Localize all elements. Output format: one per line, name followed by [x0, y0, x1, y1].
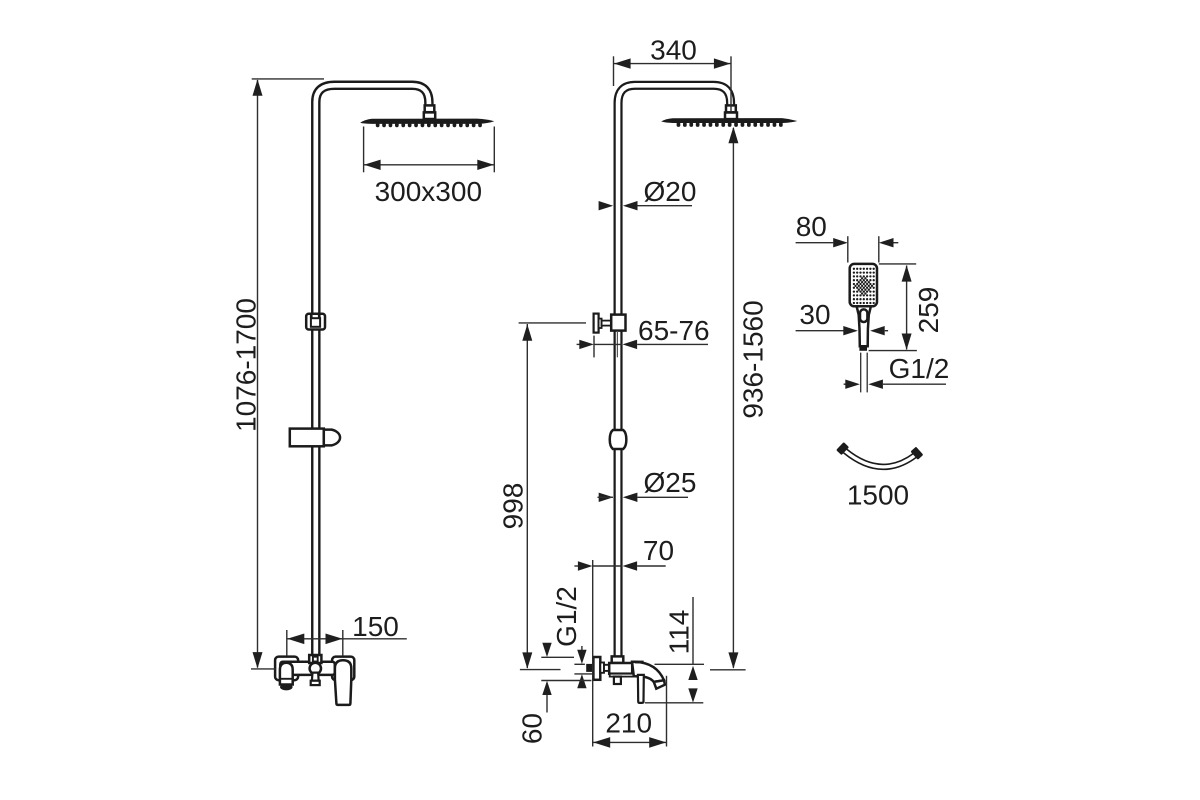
dim 210: left extension	[592, 560, 594, 747]
dim 65-76: middle segment	[594, 343, 622, 345]
dim 210: left arrow	[593, 737, 610, 748]
G1/2 inlet nipple (solid)	[586, 664, 592, 672]
dim 30: right arrow	[870, 326, 885, 335]
dim 210: right arrow	[649, 737, 666, 748]
dim 150: line	[287, 638, 407, 640]
dim 998: top arrow	[522, 324, 532, 340]
dim 65-76: left arrow	[579, 340, 594, 349]
dim 65-76: left tail	[577, 343, 581, 345]
svg-text:998: 998	[498, 483, 529, 530]
hose right fitting	[910, 447, 923, 460]
dim 300x300: line	[364, 164, 494, 166]
dim O25: right arrow	[623, 493, 638, 502]
dim O20: right leader	[638, 205, 693, 207]
dim O20: left arrow	[599, 201, 614, 210]
dim 114: up arrow	[688, 666, 697, 680]
pipe tee connector above mixer (side view)	[309, 655, 321, 663]
dim 114: upper line	[692, 597, 694, 664]
mixer body bar (side view)	[280, 662, 335, 675]
dim G1/2 mixer: bottom ref line	[574, 673, 592, 675]
inner guide line below collar	[616, 331, 618, 357]
dim 1076-1700: bottom arrow	[253, 652, 263, 668]
head connector nut (front view)	[725, 105, 737, 119]
svg-text:300x300: 300x300	[375, 176, 482, 207]
svg-text:80: 80	[796, 211, 827, 242]
dim 998: bottom arrow	[522, 652, 532, 668]
dim 300x300: right extension	[493, 127, 495, 173]
hose stub lines	[860, 353, 862, 393]
svg-text:1500: 1500	[847, 480, 909, 511]
dim 60: top arrow	[542, 643, 551, 657]
dim 30: right tail	[885, 330, 888, 332]
dim 65-76: right arrow	[623, 340, 638, 349]
dim 70: left arrow	[578, 561, 593, 570]
dim 80: right arrow	[879, 238, 894, 247]
hose outlet elbow (side view)	[280, 663, 293, 691]
svg-text:Ø25: Ø25	[644, 467, 697, 498]
dim 300x300: left arrow	[364, 160, 381, 170]
dim 1076-1700: bottom reference line	[251, 668, 276, 670]
dim 70: right leader	[637, 565, 666, 567]
hand shower handle	[857, 306, 871, 346]
dim 936-1560: top arrow	[728, 127, 738, 143]
dim G1/2 hose: left arrow	[845, 380, 860, 389]
handle bottom connector	[859, 346, 867, 350]
dim 150: left arrow	[287, 634, 304, 645]
slider bracket (side view)	[306, 314, 325, 330]
dim 60: lower line	[546, 695, 548, 713]
lever (front view)	[638, 675, 644, 703]
dim 60: top ref line	[541, 656, 574, 658]
dim 210: right extension	[666, 676, 668, 747]
dim G1/2 hose: left tail	[844, 383, 846, 385]
dim 150: right extension	[342, 630, 344, 656]
diverter foot (front view)	[614, 677, 621, 684]
dim 70: right arrow	[623, 561, 638, 570]
dim O25: left tail	[598, 496, 614, 498]
dim 1076-1700: vertical line	[257, 80, 259, 668]
svg-text:65-76: 65-76	[638, 315, 710, 346]
dim 340: left extension	[613, 56, 615, 86]
dim 80: right tail	[894, 242, 899, 244]
riser pipe (front view)	[618, 85, 731, 657]
dim 60: bottom ref line	[541, 680, 591, 682]
dim 114: down arrow	[688, 688, 697, 702]
dim 259: top arrow	[902, 265, 912, 281]
head nozzles (side view)	[376, 123, 482, 128]
svg-text:G1/2: G1/2	[889, 353, 950, 384]
svg-text:1076-1700: 1076-1700	[230, 298, 261, 432]
dim G1/2 hose: right leader	[883, 383, 946, 385]
svg-text:30: 30	[799, 299, 830, 330]
dim 340: left arrow	[614, 58, 631, 68]
dim 259: top reference line	[879, 263, 916, 265]
dim G1/2 mixer: lower arrow	[577, 674, 586, 688]
dim 70: left tail	[574, 565, 578, 567]
soap dish / handset holder (side view)	[290, 429, 340, 447]
dim G1/2 mixer: upper arrow	[577, 650, 586, 664]
diverter knob (side view)	[310, 663, 321, 685]
svg-text:936-1560: 936-1560	[738, 300, 769, 418]
dim G1/2 mixer: upper line	[581, 646, 583, 651]
flange collar steps (front view)	[600, 663, 604, 673]
dim O20: right arrow	[623, 201, 638, 210]
hand shower head	[850, 264, 877, 306]
hose left fitting	[836, 442, 849, 455]
dim 114: bottom reference line	[645, 702, 703, 704]
dim 300x300: left extension	[363, 127, 365, 173]
lever handle (side view)	[335, 660, 351, 705]
dim 998: bottom reference line	[520, 669, 561, 671]
dim 30: left arrow	[843, 326, 858, 335]
dim 150: right arrow	[326, 634, 343, 645]
dim 300x300: right arrow	[477, 160, 494, 170]
wall mixer (side view): left escutcheon	[275, 657, 298, 681]
dim 1076-1700: top reference line	[252, 78, 324, 80]
dim 80: left arrow	[833, 238, 848, 247]
svg-text:G1/2: G1/2	[551, 586, 582, 647]
dim G1/2 hose: right arrow	[868, 380, 883, 389]
dim 340: right extension	[730, 56, 732, 112]
dim 259: vertical line	[906, 266, 908, 350]
dim 150: left extension	[286, 630, 288, 656]
svg-text:60: 60	[517, 713, 548, 744]
dim 80: left extension	[847, 236, 849, 262]
dim 998: vertical line	[526, 324, 528, 668]
dim 1076-1700: top arrow	[253, 79, 263, 95]
dim O25: right leader	[637, 496, 688, 498]
mixer body (front view)	[609, 663, 632, 674]
body bottom lip	[610, 674, 636, 677]
dim O25: left arrow	[599, 493, 614, 502]
mixer flange (front view)	[593, 657, 600, 680]
wall bracket flange (front view)	[594, 314, 613, 333]
svg-text:259: 259	[913, 287, 944, 334]
dim 30: left leader	[796, 330, 844, 332]
rain shower head plate (front view)	[661, 118, 797, 123]
svg-text:340: 340	[650, 34, 697, 65]
head connector nut (side view)	[424, 105, 435, 119]
svg-text:150: 150	[352, 611, 399, 642]
svg-text:210: 210	[605, 707, 652, 738]
dim 340: line	[614, 63, 731, 65]
dim 259: bottom arrow	[902, 334, 912, 350]
dim G1/2 mixer: top ref line	[574, 663, 585, 665]
dim 65-76: wall extension line	[593, 336, 595, 358]
dim 114: mid reference line	[655, 663, 705, 665]
pipe collar at bracket (front view)	[611, 315, 625, 331]
spout (front view)	[632, 661, 665, 689]
dim 936-1560: bottom arrow	[728, 652, 738, 668]
dim 80: right extension	[878, 236, 880, 262]
dim 60: bottom arrow	[542, 681, 551, 695]
hose curve	[845, 451, 915, 467]
dim 70: middle segment	[593, 565, 623, 567]
dim 998: top reference line	[519, 322, 586, 324]
dim 65-76: right leader	[637, 343, 708, 345]
pipe sleeve above mixer (front view)	[612, 656, 624, 663]
wall mixer (side view): right escutcheon	[332, 657, 354, 681]
riser pipe (side view)	[316, 85, 429, 656]
barrel coupler (front view)	[610, 430, 627, 449]
dim 80: left leader	[796, 242, 834, 244]
dim 210: line	[593, 741, 666, 743]
head nozzles (front view)	[677, 122, 783, 127]
dim 259: bottom reference line	[869, 350, 917, 352]
spray face dots	[853, 268, 875, 305]
dim 936-1560: bottom reference line	[710, 669, 746, 671]
svg-text:70: 70	[643, 535, 674, 566]
svg-text:114: 114	[664, 610, 695, 655]
dim 340: right arrow	[714, 58, 731, 68]
svg-text:Ø20: Ø20	[644, 176, 697, 207]
handle button	[860, 309, 867, 322]
rain shower head plate (side view)	[360, 119, 494, 124]
dim 936-1560: vertical line	[732, 128, 734, 668]
